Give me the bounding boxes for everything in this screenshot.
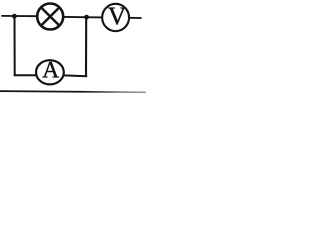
lamp L1 cross stroke 2	[42, 8, 59, 25]
ammeter label A	[42, 62, 59, 78]
ammeter A1 circle	[36, 60, 64, 84]
node junction dot right	[84, 15, 89, 20]
wire right vertical branch	[85, 17, 87, 77]
voltmeter V1 circle	[102, 4, 129, 31]
wire voltmeter right stub	[130, 17, 142, 19]
lamp L1 circle	[37, 4, 63, 30]
wire lamp to voltmeter	[64, 16, 102, 19]
wire top-left segment	[1, 15, 37, 17]
wire ammeter right to corner	[64, 74, 87, 77]
voltmeter label V	[108, 8, 126, 25]
wire bottom-left horizontal to ammeter	[14, 74, 36, 76]
node junction dot left	[12, 14, 17, 19]
lamp L1 cross stroke 1	[42, 8, 59, 25]
wire left vertical branch	[14, 16, 16, 76]
